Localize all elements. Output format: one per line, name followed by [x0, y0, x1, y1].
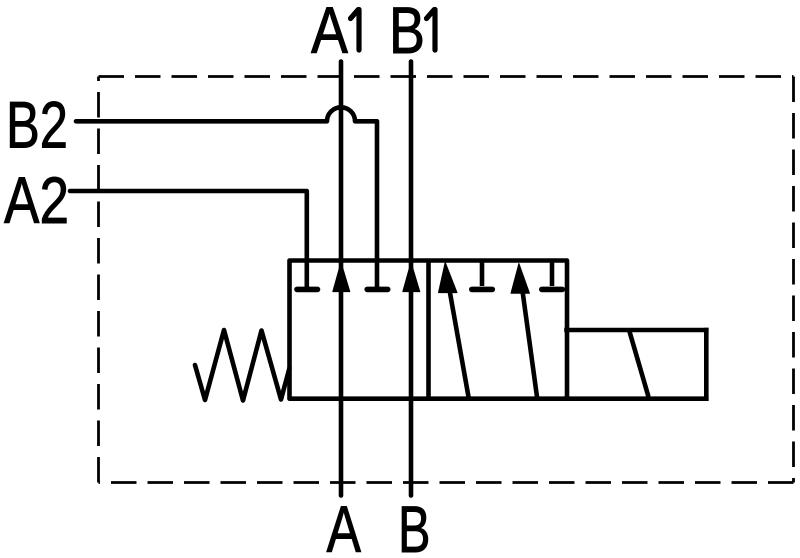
enclosure dashed border left edge: [97, 77, 100, 483]
blocked port stub T for B2: [367, 287, 388, 293]
diagonal flow arrow 2 shaft: [523, 291, 538, 397]
svg-text:B: B: [389, 0, 425, 67]
port label A1: [311, 0, 359, 67]
diagonal flow arrow 1 head: [439, 262, 458, 292]
spring: [195, 330, 290, 401]
flow arrow head on B line: [403, 262, 420, 291]
solenoid box top edge: [567, 328, 707, 333]
enclosure dashed border bottom edge: [99, 481, 794, 484]
blocked port stub T for A2: [297, 287, 318, 293]
blocked port stub in right box 2 bar: [542, 287, 563, 293]
flow arrow head on A line: [333, 262, 350, 291]
blocked port stub in right box 2 vertical: [550, 261, 555, 287]
wire A1 to A vertical: [339, 62, 344, 496]
blocked port stub in right box 1 bar: [472, 287, 493, 293]
enclosure dashed border right edge: [792, 77, 795, 483]
valve position divider: [426, 261, 431, 399]
blocked port stub in right box 1 vertical: [480, 261, 485, 287]
svg-text:A2: A2: [4, 163, 69, 237]
port label B1: [389, 0, 435, 67]
wire A2 rail: [70, 191, 307, 288]
svg-text:B2: B2: [6, 88, 68, 162]
valve body outer box: [290, 261, 568, 399]
solenoid slash: [630, 332, 649, 397]
svg-text:B: B: [398, 492, 431, 558]
diagonal flow arrow 1 shaft: [450, 290, 469, 397]
wire B1 to B vertical: [409, 62, 414, 496]
diagonal flow arrow 2 head: [511, 264, 530, 294]
solenoid box right edge: [704, 330, 709, 399]
solenoid box bottom edge: [567, 396, 707, 401]
wire B2 rail with crossover hop: [76, 107, 377, 288]
enclosure dashed border top edge: [99, 75, 794, 78]
svg-text:A: A: [311, 0, 348, 67]
svg-text:A: A: [327, 492, 362, 558]
